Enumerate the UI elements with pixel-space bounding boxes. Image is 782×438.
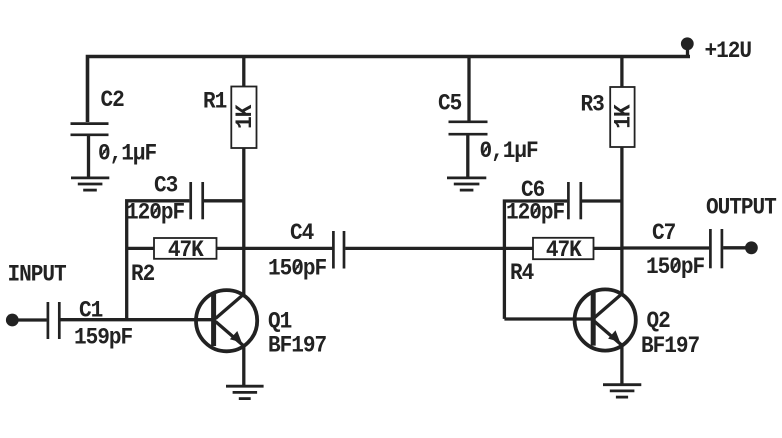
value label 159pF <box>74 324 133 351</box>
wire: stage2 base wire to Q2 <box>504 317 592 320</box>
node: output terminal dot <box>745 241 758 254</box>
wire: rail to C5 <box>467 57 470 122</box>
resistor R2 47K box <box>154 238 217 259</box>
value label 1K (rotated) <box>231 104 258 129</box>
resistor R3 <box>610 87 634 147</box>
capacitor C4 <box>333 231 344 269</box>
label C2 <box>101 86 125 113</box>
capacitor C7 <box>710 229 722 268</box>
svg-text:47K: 47K <box>546 236 582 263</box>
svg-text:C5: C5 <box>438 90 462 117</box>
value label 1K (rotated, R3) <box>609 104 636 129</box>
wire: collector node to C7 <box>622 246 709 249</box>
capacitor C6 <box>568 182 580 219</box>
wire: base node to 47K <box>127 247 154 250</box>
svg-text:R4: R4 <box>510 259 534 286</box>
svg-text:INPUT: INPUT <box>8 261 67 288</box>
ground (C5) <box>447 178 486 190</box>
wire: base node to 47K (R4) <box>504 247 533 250</box>
svg-text:R1: R1 <box>203 88 227 115</box>
svg-text:C4: C4 <box>290 219 314 246</box>
wire: C2 to ground <box>87 136 90 178</box>
node: +12V terminal dot <box>681 37 694 57</box>
value label 0,1µF <box>98 140 157 167</box>
label R1 <box>203 88 227 115</box>
svg-text:R3: R3 <box>581 91 605 118</box>
capacitor C1 <box>48 302 59 339</box>
wire: +12V supply rail across top <box>88 57 691 123</box>
svg-text:0,1µF: 0,1µF <box>480 137 539 164</box>
svg-text:C3: C3 <box>154 172 178 199</box>
wire: C3 right lead <box>204 199 244 202</box>
capacitor C3 <box>191 182 203 219</box>
label C7 <box>652 219 675 246</box>
svg-text:1K: 1K <box>231 104 258 129</box>
label R3 <box>581 91 605 118</box>
wire: C7 to output dot <box>723 246 750 249</box>
wire: C1 to Q1 base <box>61 318 214 321</box>
svg-text:+12U: +12U <box>705 37 752 64</box>
label C1 <box>79 297 103 324</box>
value label 120pF <box>126 199 185 226</box>
wire: C6 left lead and down to Q2 base node <box>504 201 567 319</box>
value label 47K (R4) <box>546 236 582 263</box>
value label BF197 (Q2) <box>641 332 699 359</box>
wire: rail to R3 <box>620 57 623 88</box>
wire: C4 to stage 2 base node <box>345 247 504 250</box>
resistor R4 47K box <box>533 238 594 259</box>
label C4 <box>290 219 314 246</box>
transistor Q1 <box>196 290 257 351</box>
svg-text:1K: 1K <box>609 104 636 129</box>
svg-text:BF197: BF197 <box>268 332 326 359</box>
svg-text:C2: C2 <box>101 86 125 113</box>
node: input terminal dot <box>6 314 19 327</box>
svg-text:159pF: 159pF <box>74 324 133 351</box>
svg-text:0,1µF: 0,1µF <box>98 140 157 167</box>
label C6 <box>521 176 545 203</box>
capacitor C5 <box>449 122 488 134</box>
wire: R3 to Q2 collector <box>620 147 623 295</box>
transistor Q2 <box>575 289 636 350</box>
value label 120pF (C6) <box>506 199 565 226</box>
resistor R1 <box>231 87 256 149</box>
wire: C5 to ground <box>466 135 469 177</box>
wire: C6 right lead <box>582 199 622 202</box>
label Q1 <box>268 308 292 335</box>
value label 0,1µF (C5) <box>480 137 539 164</box>
wire: Q2 emitter to ground <box>620 345 623 385</box>
capacitor C2 <box>71 124 109 135</box>
svg-text:47K: 47K <box>168 236 204 263</box>
svg-text:C7: C7 <box>652 219 675 246</box>
label C3 <box>154 172 178 199</box>
ground (C2) <box>71 178 109 190</box>
svg-text:Q2: Q2 <box>647 307 671 334</box>
label R2 <box>131 260 155 287</box>
wire: Q1 emitter to ground <box>242 345 245 386</box>
value label BF197 <box>268 332 326 359</box>
label +12V <box>705 37 752 64</box>
ground (Q2) <box>603 385 641 397</box>
wire: 47K to collector node and on to C4 <box>217 247 333 250</box>
label OUTPUT <box>706 194 776 221</box>
wire: 47K to Q2 collector node <box>594 247 622 250</box>
wire: rail to R1 <box>242 57 245 88</box>
value label 47K <box>168 236 204 263</box>
label R4 <box>510 259 534 286</box>
wire: input dot to C1 <box>18 318 47 321</box>
svg-text:OUTPUT: OUTPUT <box>706 194 776 221</box>
label INPUT <box>8 261 67 288</box>
wire: C3 left lead and down to base node <box>127 201 190 320</box>
svg-text:R2: R2 <box>131 260 155 287</box>
svg-text:BF197: BF197 <box>641 332 699 359</box>
value label 150pF (C7) <box>646 253 705 280</box>
ground (Q1) <box>226 386 264 398</box>
wire: R1 to Q1 collector <box>242 148 245 295</box>
value label 150pF <box>268 255 327 282</box>
label C5 <box>438 90 462 117</box>
label Q2 <box>647 307 671 334</box>
